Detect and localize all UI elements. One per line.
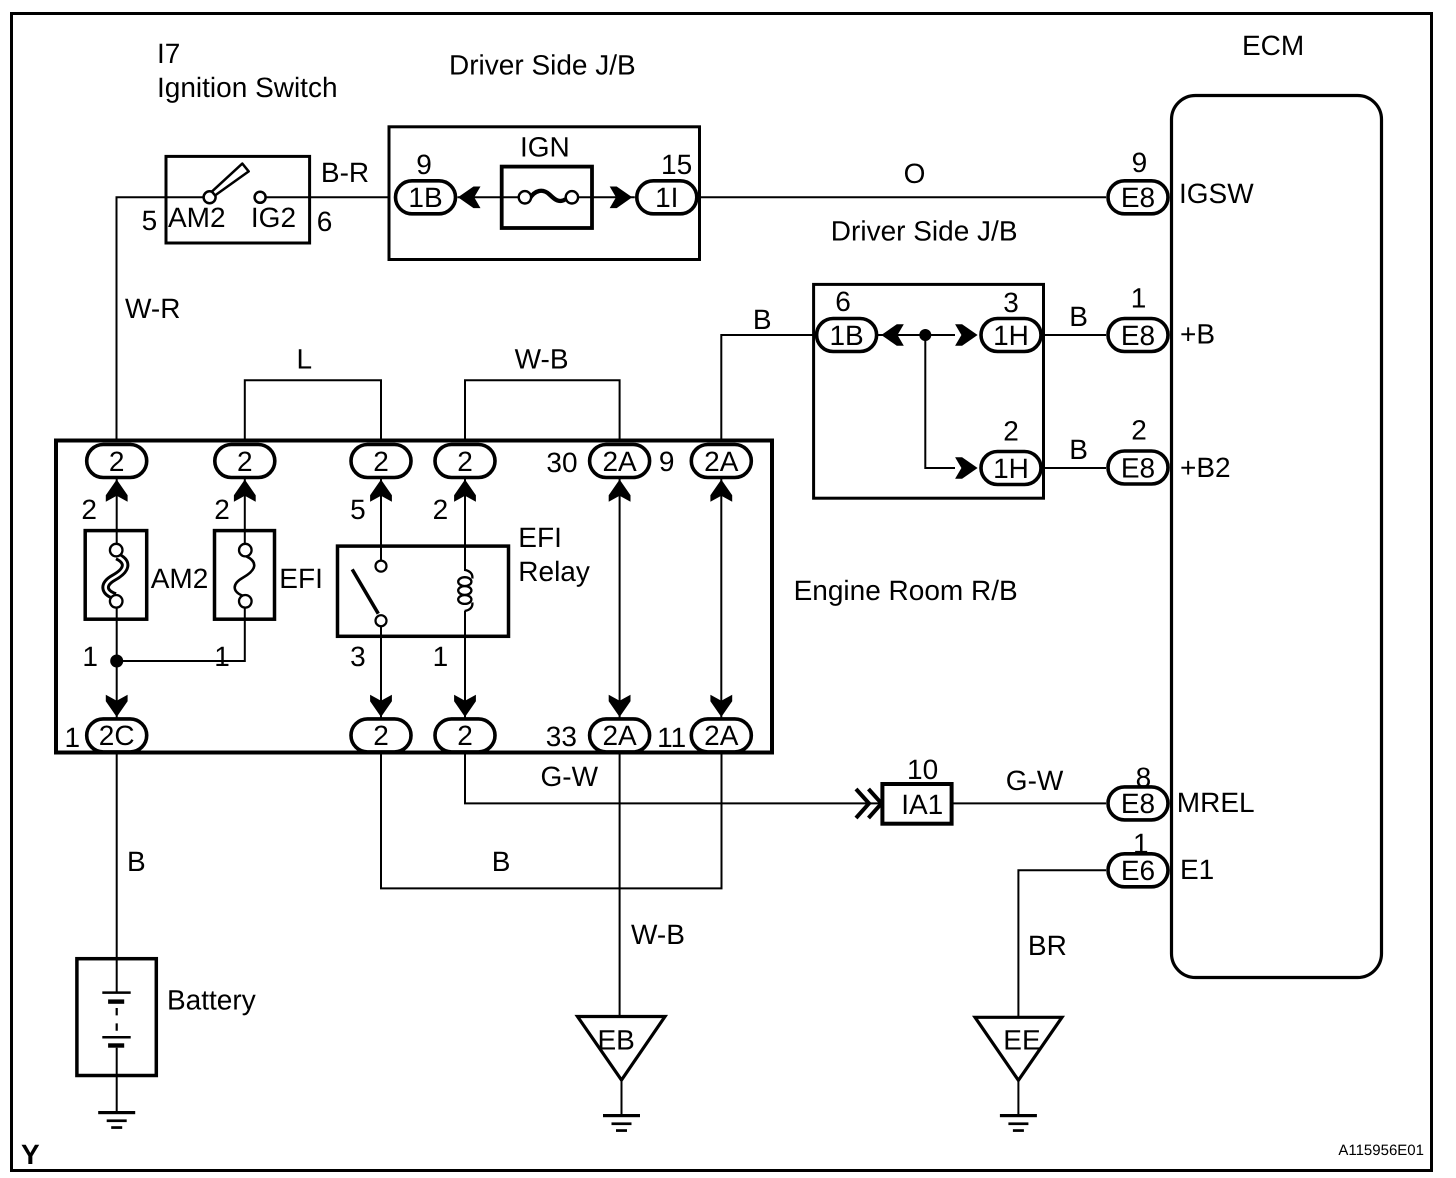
relay contact bottom (376, 615, 387, 626)
double chevron into IA1 (856, 789, 882, 818)
pin 2 label (AM2 fuse) (81, 494, 97, 525)
svg-text:Battery: Battery (167, 985, 256, 1016)
pin 9 label (E8) (1132, 147, 1148, 178)
EE ground (1000, 1114, 1037, 1132)
arrow up (relay coil) (454, 480, 476, 502)
svg-text:EE: EE (1003, 1025, 1040, 1056)
svg-text:L: L (297, 344, 313, 375)
svg-text:1: 1 (1133, 828, 1149, 859)
svg-text:AM2: AM2 (151, 563, 209, 594)
svg-text:W-R: W-R (125, 293, 180, 324)
pin 15 label (661, 149, 692, 180)
junction block Driver Side J/B box (389, 127, 700, 260)
svg-text:B: B (492, 846, 511, 877)
junction dot (919, 329, 931, 341)
pin 11 label (657, 722, 686, 753)
pin 6 label (1B) (835, 286, 851, 317)
battery ground (98, 1111, 135, 1129)
pin 6 label (317, 206, 333, 237)
ground triangle EE (975, 1017, 1062, 1080)
connector 2 (top, relay contact) (351, 445, 411, 478)
svg-text:3: 3 (1003, 287, 1019, 318)
relay blade (352, 569, 378, 613)
pin 1 label (AM2 fuse) (82, 641, 98, 672)
svg-text:I7: I7 (157, 38, 180, 69)
wire IG2 to box edge (266, 196, 310, 198)
relay coil (458, 570, 472, 611)
connector 2 (top, relay coil) (435, 445, 495, 478)
svg-text:+B2: +B2 (1180, 452, 1231, 483)
svg-text:2A: 2A (602, 720, 637, 751)
connector 2A (pin 9) (691, 445, 751, 478)
svg-text:1: 1 (214, 641, 230, 672)
arrow up (relay contact) (370, 480, 392, 502)
wire B jumper (381, 752, 722, 888)
connector 2 (top, AM2) (87, 445, 147, 478)
svg-text:2A: 2A (602, 446, 637, 477)
switch lever (212, 164, 249, 196)
svg-text:2: 2 (373, 720, 389, 751)
ECM box (1172, 96, 1382, 978)
svg-text:B: B (753, 304, 772, 335)
connector 1H (pin 2) (981, 452, 1041, 485)
label B (battery) (127, 846, 146, 877)
EFI relay box (338, 546, 509, 636)
arrow into 1H pin 3 (955, 324, 978, 346)
arrow down (2A-11) (710, 695, 732, 717)
connector E8 pin 8 MREL (1108, 787, 1168, 820)
svg-text:W-B: W-B (515, 344, 569, 375)
svg-text:Driver Side J/B: Driver Side J/B (449, 50, 636, 81)
svg-text:EFI: EFI (518, 522, 562, 553)
svg-text:1I: 1I (655, 182, 678, 213)
label B (+B wire) (1069, 301, 1088, 332)
arrow into 1H pin 2 (955, 457, 978, 479)
pin 5 label (142, 205, 158, 236)
svg-text:5: 5 (350, 494, 366, 525)
label EFI (fuse) (279, 563, 323, 594)
wire G-W to IA1 (465, 752, 882, 803)
wire AM2 fuse vertical (116, 461, 118, 735)
svg-text:B: B (1069, 434, 1088, 465)
pin 2 label (E8) (1131, 415, 1147, 446)
fuse EFI box (215, 531, 275, 620)
svg-text:1B: 1B (408, 182, 442, 213)
svg-text:B: B (127, 846, 146, 877)
arrow down (2A-33) (609, 695, 631, 717)
connector 1I (pin 15) (637, 181, 697, 214)
svg-text:EB: EB (598, 1025, 635, 1056)
svg-text:2A: 2A (704, 446, 739, 477)
arrow up (2A-30) (609, 480, 631, 502)
fuse IGN box (502, 167, 592, 228)
label B (to 1B) (753, 304, 772, 335)
svg-text:1H: 1H (993, 320, 1029, 351)
svg-text:G-W: G-W (1006, 765, 1064, 796)
wire B from 2A to 1B (721, 335, 814, 445)
label I7 (157, 38, 180, 69)
svg-text:30: 30 (546, 447, 577, 478)
connector 2A (pin 30) (590, 445, 650, 478)
wire G-W IA1 to E8 (952, 802, 1106, 804)
svg-text:8: 8 (1136, 762, 1152, 793)
label EB (598, 1025, 635, 1056)
junction block Driver Side J/B box 2 (814, 284, 1044, 498)
label B (jumper) (492, 846, 511, 877)
svg-text:E8: E8 (1121, 452, 1155, 483)
Engine Room R/B box (56, 441, 772, 753)
svg-text:AM2: AM2 (168, 202, 226, 233)
label AM2 (fuse) (151, 563, 209, 594)
svg-text:1: 1 (65, 722, 81, 753)
pin 2 label (1H) (1003, 415, 1019, 446)
svg-text:+B: +B (1180, 319, 1215, 350)
pin 10 label (907, 754, 938, 785)
pin 30 label (546, 447, 577, 478)
label G-W (left) (541, 761, 599, 792)
label L (297, 344, 313, 375)
wire fuse IGN to 1I (576, 196, 635, 198)
pin 9 label (416, 149, 432, 180)
fuse AM2 box (85, 531, 147, 620)
wire 2A-9 to 2A-11 vertical (720, 461, 722, 735)
svg-text:B-R: B-R (321, 157, 369, 188)
svg-text:Ignition Switch: Ignition Switch (157, 72, 338, 103)
label A115956E01 (1338, 1142, 1424, 1159)
connector E8 pin 1 +B (1108, 319, 1168, 352)
wire W-B loop (465, 380, 620, 444)
pin 9 label (2A) (659, 446, 675, 477)
svg-text:3: 3 (350, 641, 366, 672)
label E1 (1180, 854, 1214, 885)
connector 2C (87, 719, 147, 752)
svg-text:2C: 2C (99, 720, 135, 751)
svg-text:2: 2 (214, 494, 230, 525)
svg-text:11: 11 (657, 722, 686, 753)
svg-text:IGSW: IGSW (1179, 178, 1254, 209)
fuse IGN element (519, 191, 578, 204)
junction dot (AM2/EFI) (110, 655, 123, 668)
arrow down (2C) (106, 695, 128, 717)
connector 2 (bottom, relay contact) (351, 719, 411, 752)
switch contact AM2 (pin 5) (204, 191, 216, 203)
wire EFI fuse vertical (117, 461, 245, 661)
fuse EFI element (235, 544, 255, 608)
label Driver Side J/B (second) (831, 216, 1018, 247)
svg-text:2: 2 (237, 446, 253, 477)
svg-text:1: 1 (1131, 283, 1147, 314)
pin 33 label (546, 721, 577, 752)
svg-text:2: 2 (373, 446, 389, 477)
ground triangle EB (578, 1017, 666, 1081)
ignition switch I7 box (166, 156, 310, 243)
label Battery (167, 985, 256, 1016)
label G-W (right) (1006, 765, 1064, 796)
label BR (1028, 930, 1067, 961)
svg-text:B: B (1069, 301, 1088, 332)
svg-text:5: 5 (142, 205, 158, 236)
wire B 1H3 to E8 +B (1044, 334, 1107, 336)
connector 1H (pin 3) (981, 319, 1041, 352)
svg-text:E8: E8 (1121, 320, 1155, 351)
arrow up (EFI) (234, 480, 256, 502)
svg-text:BR: BR (1028, 930, 1067, 961)
connector E8 pin 9 IGSW (1108, 181, 1168, 214)
connector E6 pin 1 (1108, 854, 1168, 887)
svg-text:O: O (904, 158, 926, 189)
connector 2 (bottom, relay coil) (435, 719, 495, 752)
svg-text:2: 2 (1131, 415, 1147, 446)
arrow into 1B (J/B2) (881, 324, 904, 346)
label IA1 (901, 789, 943, 820)
connector 1B (pin 6) (817, 319, 877, 352)
svg-text:9: 9 (1132, 147, 1148, 178)
svg-text:Engine Room R/B: Engine Room R/B (794, 575, 1018, 606)
battery cells (102, 959, 130, 1076)
connector IA1 box (882, 784, 951, 824)
label O (904, 158, 926, 189)
label AM2 (switch) (168, 202, 226, 233)
pin 2 label (relay coil) (433, 494, 449, 525)
svg-text:2: 2 (109, 446, 125, 477)
label +B2 (1180, 452, 1231, 483)
arrow up (2A-9) (710, 480, 732, 502)
pin 1 label (relay coil) (433, 641, 449, 672)
svg-text:ECM: ECM (1242, 30, 1304, 61)
wire B-R (310, 196, 396, 198)
wire 1B to fuse IGN (458, 196, 521, 198)
svg-text:MREL: MREL (1177, 787, 1255, 818)
pin 1 label (E8) (1131, 283, 1147, 314)
svg-text:9: 9 (416, 149, 432, 180)
connector 2A (pin 11) (691, 719, 751, 752)
pin 1 label (E6) (1133, 828, 1149, 859)
wire W-R from ignition switch to Engine Room R/B (117, 197, 204, 445)
connector 1B (pin 9) (396, 181, 456, 214)
svg-text:Y: Y (21, 1139, 40, 1170)
svg-text:1B: 1B (829, 320, 863, 351)
svg-text:15: 15 (661, 149, 692, 180)
svg-text:1: 1 (433, 641, 449, 672)
svg-text:33: 33 (546, 721, 577, 752)
EB ground wire (621, 1080, 623, 1115)
arrow into 1B (458, 187, 481, 209)
svg-text:IGN: IGN (520, 132, 570, 163)
label Y (21, 1139, 40, 1170)
pin 8 label (1136, 762, 1152, 793)
connector 2A (pin 33) (590, 719, 650, 752)
arrow out to 1I (610, 187, 633, 209)
svg-text:IG2: IG2 (251, 202, 296, 233)
svg-text:IA1: IA1 (901, 789, 943, 820)
wire BR E6 to EE ground (1018, 870, 1106, 1017)
pin 1 label (2C) (65, 722, 81, 753)
label MREL (1177, 787, 1255, 818)
label IGSW (1179, 178, 1254, 209)
svg-text:EFI: EFI (279, 563, 323, 594)
pin 3 label (1003, 287, 1019, 318)
wire L loop (245, 380, 381, 444)
battery ground wire (116, 1076, 118, 1112)
svg-text:2: 2 (81, 494, 97, 525)
svg-text:1: 1 (82, 641, 98, 672)
arrow up (AM2) (106, 480, 128, 502)
wire battery feed B (116, 752, 118, 959)
label IG2 (switch) (251, 202, 296, 233)
svg-text:E6: E6 (1121, 855, 1155, 886)
svg-text:2: 2 (1003, 415, 1019, 446)
svg-text:E8: E8 (1121, 182, 1155, 213)
svg-text:2: 2 (433, 494, 449, 525)
switch contact IG2 (pin 6) (255, 192, 266, 203)
svg-text:2: 2 (457, 446, 473, 477)
svg-text:6: 6 (317, 206, 333, 237)
wire relay contact vertical (380, 461, 382, 735)
pin 3 label (relay) (350, 641, 366, 672)
wire B 1H2 to E8 +B2 (1044, 467, 1107, 469)
svg-text:9: 9 (659, 446, 675, 477)
label Engine Room R/B (794, 575, 1018, 606)
wire O (1I to IGSW) (699, 196, 1106, 198)
wire 2A-30 to 2A-33 vertical (619, 461, 621, 735)
svg-text:6: 6 (835, 286, 851, 317)
svg-text:E1: E1 (1180, 854, 1214, 885)
svg-text:Driver Side J/B: Driver Side J/B (831, 216, 1018, 247)
label B-R (321, 157, 369, 188)
EE ground wire (1017, 1080, 1019, 1114)
label +B (1180, 319, 1215, 350)
pin 5 label (relay) (350, 494, 366, 525)
label EFI Relay (518, 522, 590, 587)
connector 2 (top, EFI) (215, 445, 275, 478)
EB ground (603, 1114, 640, 1132)
wire 1B to 1H (pin 3) (877, 334, 955, 336)
label W-R (125, 293, 180, 324)
label ECM (1242, 30, 1304, 61)
connector E8 pin 2 +B2 (1108, 451, 1168, 484)
svg-text:W-B: W-B (631, 919, 685, 950)
wire relay coil vertical (464, 461, 466, 735)
wire junction to 1H (pin 2) (925, 335, 955, 468)
svg-text:2: 2 (457, 720, 473, 751)
battery box (77, 959, 156, 1076)
label W-B (top) (515, 344, 569, 375)
svg-text:Relay: Relay (518, 556, 590, 587)
relay contact top (376, 561, 387, 572)
svg-text:10: 10 (907, 754, 938, 785)
arrow down (relay coil) (454, 695, 476, 717)
label Driver Side J/B (top) (449, 50, 636, 81)
pin 1 label (EFI fuse) (214, 641, 230, 672)
fuse AM2 element (106, 544, 126, 608)
label W-B (bottom) (631, 919, 685, 950)
label EE (1003, 1025, 1040, 1056)
label Ignition Switch (157, 72, 338, 103)
wire W-B to EB ground (619, 752, 621, 1017)
label IGN (520, 132, 570, 163)
svg-text:2A: 2A (704, 720, 739, 751)
svg-text:1H: 1H (993, 453, 1029, 484)
arrow down (relay contact) (370, 695, 392, 717)
pin 2 label (EFI fuse) (214, 494, 230, 525)
label B (+B2 wire) (1069, 434, 1088, 465)
svg-text:G-W: G-W (541, 761, 599, 792)
svg-text:A115956E01: A115956E01 (1338, 1142, 1424, 1159)
